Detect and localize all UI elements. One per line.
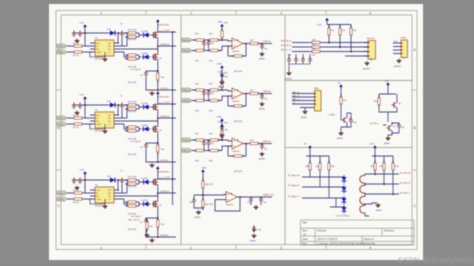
svg-text:C: C	[57, 203, 60, 208]
op-amp buffer U	[226, 192, 237, 207]
junction HV bus b2	[172, 103, 174, 105]
opamp stage 2 (current sense B)	[182, 71, 272, 124]
svg-text:COM1: COM1	[400, 38, 407, 40]
power cluster mid 2	[216, 116, 229, 142]
wire opto output rows	[365, 173, 399, 216]
svg-text:B: B	[413, 125, 416, 130]
svg-text:AGND: AGND	[250, 240, 256, 243]
schematic white page	[49, 4, 423, 260]
svg-text:Date:: Date:	[302, 237, 309, 241]
junction pullups	[328, 42, 330, 44]
resistor ind load	[374, 95, 381, 108]
opamp stage 3 (current sense C)	[182, 121, 272, 174]
svg-text:AGND: AGND	[337, 137, 343, 140]
section divider vertical 1	[180, 15, 182, 245]
wire cap bank	[289, 54, 310, 71]
svg-text:C: C	[413, 203, 416, 208]
transistor Q ind lower	[387, 123, 397, 133]
zone tick marks	[56, 10, 417, 250]
resistor divider bottom	[202, 197, 214, 210]
wire pullup rail	[327, 25, 351, 29]
ground sensor	[337, 131, 343, 140]
ground connector P3	[363, 61, 371, 71]
svg-text:AGND2: AGND2	[363, 68, 371, 71]
svg-text:HALL_A: HALL_A	[292, 91, 300, 94]
svg-text:MCU_B_H: MCU_B_H	[281, 45, 291, 47]
section divider horizontal right top	[285, 80, 412, 82]
svg-text:+3.3V: +3.3V	[369, 144, 375, 146]
resistor pullup 2	[339, 25, 346, 38]
connector MCU header P3	[364, 38, 376, 61]
wire divider bottoms	[194, 204, 203, 210]
wire opto right rail	[372, 152, 393, 163]
resistor pulldown extra phase C	[146, 219, 154, 232]
svg-text:U19 TLP281-4: U19 TLP281-4	[336, 216, 350, 218]
wire opto left rail	[306, 152, 329, 163]
svg-text:L_SEN: L_SEN	[328, 115, 335, 117]
resistor divider top	[202, 178, 214, 191]
capacitor bulk ref	[252, 226, 262, 233]
capacitor out 2	[259, 197, 267, 205]
svg-text:MCU_A_H: MCU_A_H	[281, 40, 291, 43]
svg-text:LMV321: LMV321	[226, 204, 234, 206]
ground pulldown	[145, 233, 150, 238]
wire opto input rows	[302, 173, 344, 207]
opamp stage 1 (current sense A)	[182, 21, 272, 74]
wire out caps	[251, 197, 272, 205]
capacitor sensor	[349, 118, 358, 125]
optocoupler U19 cell A	[342, 174, 366, 184]
gate driver block 2 (phase B)	[57, 91, 176, 167]
resistor opto in 1	[306, 160, 312, 173]
power sensor arrow	[337, 82, 343, 91]
encoder optocoupler section	[288, 144, 411, 218]
sheet inner border	[61, 15, 412, 245]
transistor Q ind upper	[392, 100, 402, 110]
svg-text:IF_Signal_C: IF_Signal_C	[288, 196, 300, 198]
wire pulldown	[146, 219, 148, 222]
svg-text:+12V: +12V	[384, 80, 389, 82]
svg-text:Title: Title	[302, 221, 307, 225]
ground ind	[384, 136, 390, 145]
svg-text:R61 10K: R61 10K	[205, 204, 213, 206]
aux interface section	[292, 80, 405, 145]
ground connector P4	[394, 59, 402, 69]
zone labels	[57, 11, 416, 250]
title block	[301, 220, 415, 245]
resistor series 3	[309, 49, 323, 53]
svg-text:File:: File:	[302, 242, 307, 246]
resistor opto out 1	[371, 160, 377, 173]
svg-text:AGND: AGND	[376, 209, 382, 212]
reference buffer stage	[189, 167, 275, 243]
resistor opto in 2	[316, 160, 322, 173]
svg-text:AGND: AGND	[301, 116, 307, 119]
svg-text:HALL_C: HALL_C	[292, 98, 300, 101]
svg-text:AGND: AGND	[195, 216, 201, 219]
optocoupler U19 cell C	[342, 195, 366, 205]
svg-text:IF_Signal_A: IF_Signal_A	[288, 174, 300, 177]
svg-text:MCU_C_H: MCU_C_H	[281, 50, 292, 52]
sheet outer border	[56, 11, 417, 250]
power opto right arrow	[369, 144, 377, 153]
resistor opto out 3	[392, 160, 400, 173]
svg-text:R60 10K: R60 10K	[205, 184, 213, 186]
svg-text:Revision: Revision	[384, 229, 395, 233]
svg-text:VREF+2.5V: VREF+2.5V	[263, 194, 275, 196]
connector hall header P5	[292, 87, 321, 111]
svg-text:C:\Users\..\DCDC-MOTOR-DRI.Sch: C:\Users\..\DCDC-MOTOR-DRI.SchDoc	[317, 242, 365, 246]
svg-text:Sheet of: Sheet of	[364, 237, 374, 241]
junction HV bus b1	[172, 31, 174, 33]
resistor series 1	[309, 40, 323, 44]
power +3.3V arrow	[316, 18, 329, 27]
svg-text:CSDN @IRuanyWNsu: CSDN @IRuanyWNsu	[398, 255, 474, 264]
capacitor ind	[397, 123, 405, 130]
power opto left arrow	[303, 144, 312, 153]
svg-text:Ind_Rect: Ind_Rect	[370, 122, 379, 125]
svg-text:Encoder_A: Encoder_A	[400, 171, 411, 174]
ground cap bank	[285, 71, 293, 81]
junction opto outs	[374, 173, 376, 175]
capacitor divider	[189, 198, 196, 205]
junction HV bus b3	[172, 178, 174, 180]
optocoupler U19 cell D	[342, 204, 366, 214]
resistor sensor pullup	[340, 94, 348, 107]
wire rows	[292, 38, 368, 56]
svg-text:MCU-IO: MCU-IO	[367, 38, 375, 40]
mcu interface section	[281, 18, 408, 81]
svg-text:A: A	[413, 47, 416, 52]
svg-text:AGND: AGND	[384, 142, 390, 145]
svg-text:IF_Signal_B: IF_Signal_B	[288, 185, 300, 187]
svg-text:+5VA: +5VA	[201, 167, 206, 170]
wire HV bus left column	[172, 32, 174, 205]
svg-text:Encoder_B: Encoder_B	[400, 181, 411, 184]
svg-text:+3.3V: +3.3V	[316, 24, 322, 26]
capacitor filter bank 1	[287, 55, 292, 64]
wire sensor	[341, 91, 351, 131]
svg-text:AGND2: AGND2	[394, 65, 402, 68]
junction buffer out	[239, 196, 241, 198]
svg-text:+15V: +15V	[393, 41, 398, 43]
transistor Q sensor	[342, 115, 352, 125]
ground opto	[376, 203, 383, 212]
ground connector P5	[301, 110, 307, 119]
resistor opto in 3	[328, 160, 336, 173]
ground divider	[195, 210, 201, 219]
svg-text:2024-5-7 9:58:41: 2024-5-7 9:58:41	[317, 237, 338, 241]
section divider vertical 2	[284, 15, 286, 245]
connector comm header P4	[393, 38, 408, 59]
resistor pullup 1	[328, 25, 335, 38]
capacitor filter bank 4	[308, 55, 316, 64]
svg-text:HALL: HALL	[314, 87, 320, 90]
ground bulk ref	[250, 234, 256, 243]
section divider horizontal right bottom	[285, 147, 412, 149]
svg-text:Encoder_C: Encoder_C	[400, 191, 411, 194]
svg-text:4.7uF: 4.7uF	[256, 230, 262, 232]
resistor pullup 3	[350, 25, 357, 38]
resistor opto out 2	[380, 160, 386, 173]
gate driver block 3 (phase C)	[57, 166, 176, 242]
power +5VA ref	[201, 167, 206, 177]
svg-text:AGND2: AGND2	[285, 78, 293, 81]
svg-text:Number: Number	[317, 229, 327, 233]
power ref down arrow	[252, 226, 256, 233]
wire ind top loop	[379, 89, 399, 136]
resistor series 2	[309, 44, 323, 48]
gate driver block 1 (phase A)	[57, 19, 176, 95]
svg-text:GEL_Link_B: GEL_Link_B	[128, 220, 140, 222]
svg-text:A4: A4	[303, 232, 307, 236]
svg-text:Drawn By:: Drawn By:	[364, 242, 377, 246]
junction divider	[202, 194, 204, 196]
wire buffer feedback loop	[215, 194, 251, 211]
svg-text:HALL_B: HALL_B	[292, 94, 300, 97]
optocoupler U19 cell B	[342, 184, 366, 194]
ground out caps	[254, 205, 259, 210]
capacitor filter bank 2	[294, 57, 298, 64]
svg-text:Size: Size	[302, 229, 308, 233]
wire divider	[194, 176, 226, 200]
power cluster mid 1	[216, 63, 229, 89]
power ind arrow	[384, 80, 390, 89]
capacitor filter bank 3	[301, 57, 305, 64]
capacitor out 1	[247, 197, 253, 205]
